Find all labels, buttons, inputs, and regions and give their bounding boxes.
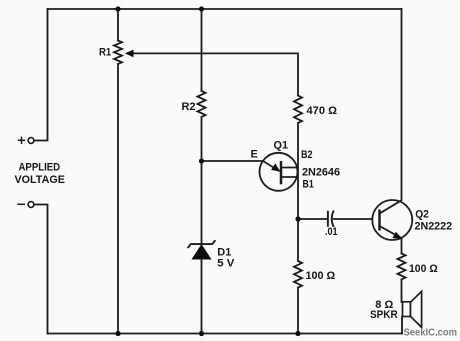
node top rail / R1	[115, 6, 120, 11]
node capacitor / B1 leg	[295, 216, 300, 221]
Q2 emitter arrowhead	[392, 232, 401, 239]
Q1 base bar	[280, 161, 283, 184]
wire R2 branch upper	[201, 9, 203, 91]
speaker cone	[411, 291, 422, 327]
resistor 100 ohm (B1 leg)	[294, 261, 302, 288]
svg-text:APPLIED: APPLIED	[19, 161, 61, 173]
capacitor C1 .01 plates	[328, 211, 334, 228]
svg-text:470 Ω: 470 Ω	[307, 105, 338, 117]
wire R1 wiper arm to 470 ohm	[132, 53, 298, 95]
resistor 100 ohm (emitter)	[398, 254, 406, 280]
Q2 base bar	[378, 210, 381, 231]
transistor Q2 circle (2N2222)	[372, 200, 412, 240]
wire 470 ohm to B2/B1 and cap node	[297, 123, 299, 261]
svg-text:Q2: Q2	[415, 209, 429, 221]
wire top rail	[48, 8, 402, 10]
zener diode D1 cathode bar	[188, 240, 216, 248]
svg-text:B2: B2	[301, 149, 313, 161]
node top rail / R2	[199, 6, 204, 11]
resistor R2	[198, 91, 206, 117]
svg-text:E: E	[251, 149, 258, 161]
wire 100 ohm to speaker	[401, 280, 403, 303]
svg-text:R1: R1	[99, 47, 111, 59]
resistor R1 (potentiometer)	[114, 41, 122, 64]
svg-text:SPKR: SPKR	[370, 309, 398, 321]
svg-text:2N2222: 2N2222	[415, 221, 453, 233]
svg-text:VOLTAGE: VOLTAGE	[15, 174, 65, 186]
wire emitter lead	[202, 161, 280, 171]
wire R1 branch lower	[117, 64, 119, 334]
wire R1 branch upper	[117, 9, 119, 41]
minus sign	[18, 203, 26, 205]
svg-text:B1: B1	[303, 179, 314, 191]
wire right rail (to Q2 collector)	[401, 9, 403, 200]
terminal + circle	[28, 138, 34, 144]
wire 100 ohm to bottom rail	[297, 288, 299, 334]
speaker driver rectangle	[403, 302, 411, 317]
Q2 collector line	[380, 200, 402, 213]
svg-text:2N2646: 2N2646	[302, 167, 340, 179]
wire left rail lower (- lead)	[34, 205, 48, 334]
wire R2 to emitter node	[201, 117, 203, 243]
plus sign	[18, 137, 25, 144]
potentiometer wiper arrowhead	[125, 50, 134, 58]
Q2 emitter line	[380, 226, 401, 238]
svg-text:5 V: 5 V	[217, 258, 235, 270]
node emitter / R2 branch	[199, 158, 204, 163]
svg-text:Q1: Q1	[274, 140, 289, 152]
node bottom rail / 100 ohm	[295, 331, 300, 336]
terminal - circle	[28, 202, 34, 208]
wire capacitor to Q2 base	[334, 218, 380, 220]
wire zener to bottom rail	[201, 260, 203, 334]
wire cap node to capacitor	[298, 218, 328, 220]
svg-text:100 Ω: 100 Ω	[409, 263, 438, 275]
resistor 470 ohm	[294, 96, 302, 124]
wire left rail upper (+ lead)	[34, 9, 48, 141]
wire bottom rail	[48, 333, 403, 335]
Q1 B2 stub	[281, 167, 299, 169]
transistor Q1 circle (UJT 2N2646)	[260, 153, 298, 191]
Q1 emitter arrowhead	[271, 163, 280, 171]
wire speaker to bottom rail	[401, 317, 403, 334]
node bottom rail / zener	[199, 331, 204, 336]
svg-text:100 Ω: 100 Ω	[306, 270, 336, 282]
Q1 B1 stub	[281, 176, 299, 178]
node bottom rail / R1	[115, 331, 120, 336]
zener diode D1 triangle	[192, 245, 211, 260]
svg-text:.01: .01	[325, 226, 338, 238]
wire Q2 emitter to 100 ohm	[401, 239, 403, 254]
svg-text:SeekIC.com: SeekIC.com	[404, 328, 458, 339]
svg-text:R2: R2	[182, 101, 196, 113]
